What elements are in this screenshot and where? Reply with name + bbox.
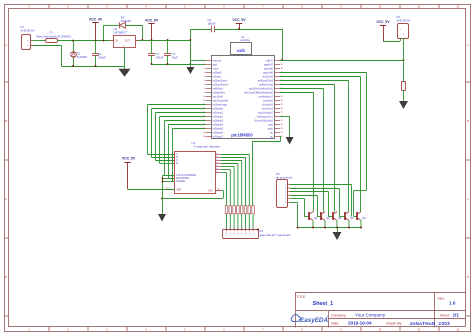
wire mcu gnd pin to ground (280, 116, 290, 118)
svg-text:VCC_5V: VCC_5V (376, 20, 390, 24)
capacitor C1 100nF (95, 41, 97, 53)
svg-text:1: 1 (253, 233, 254, 235)
svg-text:CH5.08-2A: CH5.08-2A (21, 29, 35, 33)
svg-text:ra3/an3/vref+: ra3/an3/vref+ (213, 83, 229, 87)
regulator U2 LM7805CT (114, 36, 136, 48)
capacitor C4 100pF (211, 26, 213, 32)
wire U3 vss to ground (215, 190, 221, 192)
ground symbol below U2 (124, 47, 126, 67)
svg-text:Q2: Q2 (326, 216, 330, 220)
wire mcu to resistor 8 (279, 136, 282, 138)
svg-text:an9/ccp2/rb3: an9/ccp2/rb3 (258, 79, 274, 83)
junction node VCC5V-C2 (151, 39, 153, 41)
svg-text:an8/int2/rb2: an8/int2/rb2 (259, 83, 273, 87)
junction node mcu ground (189, 63, 191, 65)
svg-text:11: 11 (203, 100, 205, 102)
svg-text:Your Company: Your Company (355, 313, 386, 318)
svg-text:3: 3 (204, 68, 205, 70)
svg-text:Q5: Q5 (362, 216, 366, 220)
svg-text:Company:: Company: (331, 313, 347, 317)
svg-text:5: 5 (237, 233, 238, 235)
svg-text:re3/mclr/vpp: re3/mclr/vpp (213, 103, 228, 107)
ground symbol right (399, 101, 408, 109)
svg-text:2: 2 (285, 188, 286, 190)
frame zone ticks right (466, 82, 471, 316)
svg-text:rd7/spp7: rd7/spp7 (213, 135, 224, 139)
svg-text:VCC_5V: VCC_5V (232, 18, 246, 22)
svg-text:®: ® (327, 316, 329, 319)
diode D2 1N4448 bypass (103, 25, 105, 40)
wire P4 down (403, 38, 405, 82)
connector P4 CH5.08-2A (398, 24, 409, 39)
junction node fuse-D1 (72, 40, 74, 42)
svg-text:1: 1 (172, 155, 173, 157)
wire C4 line left (190, 29, 211, 31)
svg-text:gaan naar de 7 sgementen: gaan naar de 7 sgementen (260, 233, 292, 237)
wires P3 to transistor bases (290, 185, 352, 228)
transistor Q5 (357, 212, 366, 228)
junction node D2 right (141, 39, 143, 41)
svg-text:A: A (467, 43, 469, 47)
svg-text:C: C (467, 197, 469, 201)
resistor R1 (402, 82, 406, 91)
svg-text:gnd: gnd (213, 63, 218, 67)
ground symbol below decoder (158, 214, 166, 222)
EasyEDA logo (291, 315, 328, 324)
ground symbol transistors (337, 228, 339, 233)
svg-text:OUT: OUT (125, 39, 131, 43)
svg-text:1: 1 (285, 184, 286, 186)
junction node VCC5V top (238, 28, 240, 30)
diode D1 1N4448 (73, 41, 75, 52)
svg-text:VCC_5V: VCC_5V (145, 18, 159, 22)
svg-text:ra4/t0cki: ra4/t0cki (213, 87, 223, 91)
decoder U3 7-segment (175, 152, 216, 194)
svg-text:1: 1 (204, 60, 205, 62)
svg-text:8: 8 (204, 88, 205, 90)
svg-text:3: 3 (245, 233, 246, 235)
svg-text:3: 3 (285, 191, 286, 193)
svg-text:100pF: 100pF (208, 21, 216, 25)
transistor Q2 (321, 212, 330, 228)
svg-text:3: 3 (245, 228, 246, 230)
svg-text:6: 6 (234, 228, 235, 230)
svg-text:IN: IN (116, 39, 119, 43)
svg-text:20: 20 (203, 136, 205, 138)
wire flag to P4 (383, 41, 400, 43)
svg-text:VCC_5V: VCC_5V (122, 157, 136, 161)
svg-text:usb: usb (237, 48, 245, 53)
svg-text:Q4: Q4 (350, 216, 354, 220)
svg-text:vdd in: vdd in (266, 59, 274, 63)
frame zone letters right (467, 43, 469, 279)
svg-text:osc1/clki: osc1/clki (213, 95, 224, 99)
frame zone ticks top (49, 4, 439, 9)
svg-text:rx/dt/sdo/rc7: rx/dt/sdo/rc7 (258, 95, 273, 99)
svg-text:t1oso/t13cki/rc0: t1oso/t13cki/rc0 (254, 119, 273, 123)
junction node vss rail (161, 197, 163, 199)
junction node D1-gnd (72, 65, 74, 67)
svg-text:de common's: de common's (276, 175, 293, 179)
wire P1 pin1 down to ground rail (33, 45, 62, 47)
svg-text:8: 8 (226, 233, 227, 235)
svg-text:1N4448: 1N4448 (77, 55, 87, 59)
emitter ground rail (298, 227, 362, 229)
svg-text:7-segment decoder: 7-segment decoder (194, 145, 221, 149)
svg-text:rd3/spp3: rd3/spp3 (213, 119, 224, 123)
svg-text:d+/vp/rc5: d+/vp/rc5 (262, 103, 273, 107)
svg-text:P2: P2 (260, 229, 264, 233)
svg-text:ra2/an2/vref-: ra2/an2/vref- (213, 79, 228, 83)
svg-text:9: 9 (204, 92, 205, 94)
svg-text:24: 24 (281, 124, 283, 126)
junction node vdd-in (281, 59, 283, 61)
svg-text:6: 6 (204, 80, 205, 82)
wire vdd-in rail to P4 (280, 60, 404, 62)
svg-text:7: 7 (172, 152, 173, 154)
svg-text:1.0: 1.0 (449, 300, 456, 305)
svg-text:Sheet:: Sheet: (440, 314, 450, 318)
svg-text:t1osi/ccp2/rc1: t1osi/ccp2/rc1 (257, 115, 274, 119)
wire C4 line down to vdd-in (282, 29, 284, 60)
svg-text:D: D (176, 162, 178, 165)
capacitor C2 100nF (151, 40, 153, 53)
svg-text:REV:: REV: (438, 297, 445, 301)
svg-text:pgd/rb7: pgd/rb7 (264, 63, 273, 67)
junction node fuse-C1 (95, 40, 97, 42)
svg-text:4: 4 (285, 195, 286, 197)
svg-text:6: 6 (172, 161, 173, 163)
wire gnd rail to mcu pin2 (190, 64, 205, 66)
svg-text:23: 23 (281, 128, 283, 130)
svg-text:vnce: vnce (213, 68, 219, 71)
svg-text:pic18f4550: pic18f4550 (231, 133, 253, 138)
svg-text:an10/int1/sck/scl/rb1: an10/int1/sck/scl/rb1 (249, 87, 274, 91)
svg-text:29: 29 (281, 104, 283, 106)
svg-text:JoNaTHaN_2303: JoNaTHaN_2303 (410, 321, 451, 326)
svg-text:4: 4 (204, 72, 205, 74)
svg-text:5: 5 (285, 199, 286, 201)
svg-text:rd0/spp0: rd0/spp0 (213, 107, 224, 111)
svg-text:rd6/spp6: rd6/spp6 (213, 131, 224, 135)
svg-text:gnd: gnd (268, 123, 273, 127)
svg-text:7: 7 (230, 233, 231, 235)
junction node C3 top (167, 39, 169, 41)
svg-text:38: 38 (281, 68, 283, 70)
svg-text:31: 31 (281, 96, 283, 98)
svg-text:Q3: Q3 (338, 216, 342, 220)
wire R1 to ground (403, 90, 405, 101)
svg-text:TITLE:: TITLE: (297, 295, 307, 299)
wire 5V riser to C4 line (190, 29, 192, 40)
svg-text:30: 30 (281, 100, 283, 102)
svg-text:rd5/spp5: rd5/spp5 (213, 127, 224, 131)
svg-text:rd2/spp2: rd2/spp2 (213, 115, 224, 119)
svg-text:ra1/an1: ra1/an1 (213, 75, 222, 79)
junction node D2 left (103, 40, 105, 42)
svg-text:osc2/clko/ra6: osc2/clko/ra6 (213, 99, 229, 103)
svg-text:100nF: 100nF (98, 55, 106, 59)
svg-text:D: D (467, 275, 469, 279)
connector P3 (277, 180, 288, 208)
wire U3 control pins to ground (162, 175, 174, 177)
transistor Q1 (309, 212, 318, 228)
svg-text:22: 22 (281, 132, 283, 134)
decoder U3 output wires (215, 155, 249, 206)
svg-text:2: 2 (249, 233, 250, 235)
svg-text:1/1: 1/1 (453, 313, 460, 318)
junction node P4 rail (403, 59, 405, 61)
svg-text:6: 6 (234, 233, 235, 235)
transistor Q3 (333, 212, 342, 228)
svg-text:an12/int0/flt0/sdi/sda/rb0: an12/int0/flt0/sdi/sda/rb0 (244, 91, 273, 95)
svg-text:Sheet_1: Sheet_1 (313, 301, 334, 307)
svg-text:28: 28 (281, 108, 283, 110)
svg-text:5: 5 (237, 228, 238, 230)
connector P1 CH5.08-2A (22, 35, 31, 50)
svg-text:pgc/rb6: pgc/rb6 (264, 67, 273, 71)
svg-text:19: 19 (203, 132, 205, 134)
svg-text:PHASE: PHASE (176, 179, 185, 183)
svg-text:10: 10 (203, 96, 205, 98)
svg-text:vusb: vusb (267, 127, 273, 131)
svg-text:7: 7 (204, 84, 205, 86)
svg-text:2: 2 (204, 64, 205, 66)
frame zone ticks left (4, 82, 9, 316)
frame zone numbers bottom (28, 327, 460, 331)
svg-text:2: 2 (172, 158, 173, 160)
resistor network R2-R9 (225, 206, 254, 230)
mcu right pins (244, 59, 283, 139)
svg-text:ccp1/p1a/rc2: ccp1/p1a/rc2 (258, 111, 274, 115)
wire U2 out rail (139, 40, 191, 42)
svg-text:VCC_4V: VCC_4V (89, 17, 103, 21)
ground symbol below mcu right (286, 137, 294, 145)
wire P1 pin2 to fuse (33, 40, 45, 42)
junction node C1-gnd (95, 65, 97, 67)
svg-text:pgm/rb5: pgm/rb5 (263, 71, 273, 75)
svg-text:CH5.08-2A: CH5.08-2A (397, 19, 411, 23)
wire VCC to U3 vdd (128, 189, 174, 191)
ground rail input section (62, 66, 125, 68)
mcu left bus wires to decoder (148, 105, 206, 182)
svg-text:rd4/spp4: rd4/spp4 (213, 123, 224, 127)
usb connector U1 (231, 43, 252, 55)
svg-text:B: B (5, 119, 7, 123)
mcu right bus wires to transistors (280, 73, 367, 217)
svg-text:F1: F1 (50, 30, 54, 34)
svg-text:1: 1 (253, 228, 254, 230)
mcu left pins (203, 59, 229, 139)
title block outline (295, 292, 466, 294)
ground rail C2 C3 (152, 64, 191, 66)
svg-text:ra0/an0: ra0/an0 (213, 71, 222, 75)
frame zone numbers top (28, 5, 460, 9)
capacitor C3 10uF (167, 40, 169, 53)
wire vdd-out to riser (190, 60, 205, 62)
svg-text:Drawn By:: Drawn By: (387, 321, 403, 325)
frame zone ticks bottom (49, 327, 439, 331)
svg-text:8: 8 (226, 228, 227, 230)
svg-text:B: B (467, 119, 469, 123)
svg-text:D: D (5, 275, 7, 279)
svg-text:d-/vm/rc4: d-/vm/rc4 (262, 107, 274, 111)
svg-text:7: 7 (230, 228, 231, 230)
svg-text:G: G (123, 45, 125, 47)
svg-text:EasyEDA: EasyEDA (300, 317, 328, 324)
wire C4 line right (214, 29, 282, 31)
svg-text:rd1/spp1: rd1/spp1 (213, 111, 224, 115)
svg-text:2: 2 (249, 228, 250, 230)
svg-text:100nF: 100nF (156, 55, 164, 59)
svg-text:6: 6 (285, 202, 286, 204)
svg-text:Q1: Q1 (314, 216, 318, 220)
svg-text:5: 5 (204, 76, 205, 78)
svg-text:2019-10-04: 2019-10-04 (348, 321, 372, 326)
svg-text:vdd out: vdd out (213, 59, 222, 63)
svg-text:4: 4 (241, 233, 242, 235)
svg-text:wusb1g: wusb1g (241, 38, 250, 42)
svg-text:VSS: VSS (208, 190, 213, 193)
fuse F1 (46, 39, 58, 43)
svg-text:LM7805CT: LM7805CT (114, 31, 128, 35)
wire fuse to regulator input (57, 40, 111, 42)
svg-text:C: C (5, 197, 7, 201)
svg-text:Date:: Date: (331, 321, 339, 325)
svg-text:39: 39 (281, 64, 283, 66)
svg-text:tx/ck/rc6: tx/ck/rc6 (263, 99, 273, 103)
svg-text:27: 27 (281, 112, 283, 114)
svg-text:4: 4 (241, 228, 242, 230)
connector P2 (223, 230, 259, 239)
svg-text:an11/rb4: an11/rb4 (263, 75, 274, 79)
decoder U3 left pin numbers (172, 152, 173, 181)
frame zone letters left (5, 43, 7, 279)
svg-text:10uF: 10uF (172, 55, 179, 59)
svg-text:VDD: VDD (176, 188, 181, 191)
svg-text:ra5/an4/ss: ra5/an4/ss (213, 91, 226, 95)
ground symbol below mcu vdd node (190, 64, 192, 67)
decoder U3 output pin numbers (216, 153, 219, 173)
svg-text:A: A (5, 43, 7, 47)
transistor Q4 (345, 212, 354, 228)
svg-text:21: 21 (281, 136, 283, 138)
svg-text:25: 25 (281, 120, 283, 122)
microcontroller pic18f4550 (212, 56, 275, 139)
